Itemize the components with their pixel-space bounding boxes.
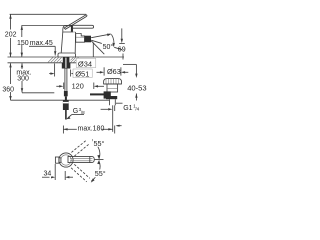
svg-text:Ø63: Ø63 [107,67,121,76]
svg-text:G1: G1 [123,105,132,112]
svg-text:69: 69 [118,46,126,53]
svg-text:55°: 55° [95,169,106,178]
svg-text:55°: 55° [94,139,105,148]
svg-text:Ø51: Ø51 [75,69,89,78]
svg-text:150: 150 [17,40,29,47]
svg-text:50°: 50° [103,43,114,51]
svg-text:120: 120 [72,81,84,90]
svg-text:300: 300 [17,76,29,83]
svg-text:max.180: max.180 [78,126,105,133]
svg-text:G: G [73,108,78,115]
svg-text:202: 202 [5,32,17,39]
svg-text:40-53: 40-53 [127,83,146,92]
svg-text:/4: /4 [135,107,139,112]
svg-text:Ø34: Ø34 [78,59,92,68]
svg-text:34: 34 [44,171,52,178]
svg-text:/8: /8 [81,110,85,115]
svg-text:360: 360 [2,87,14,94]
